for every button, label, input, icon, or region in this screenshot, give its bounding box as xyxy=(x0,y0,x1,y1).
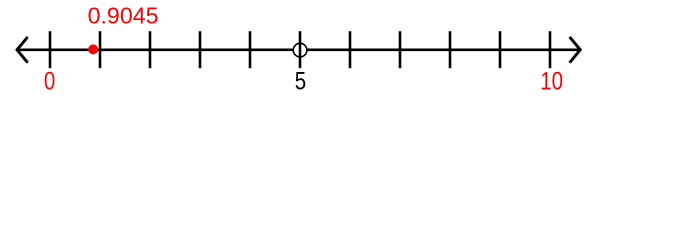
svg-text:0.9045: 0.9045 xyxy=(88,2,159,28)
svg-text:0: 0 xyxy=(44,66,55,94)
svg-text:5: 5 xyxy=(295,66,306,94)
svg-text:10: 10 xyxy=(540,66,563,94)
